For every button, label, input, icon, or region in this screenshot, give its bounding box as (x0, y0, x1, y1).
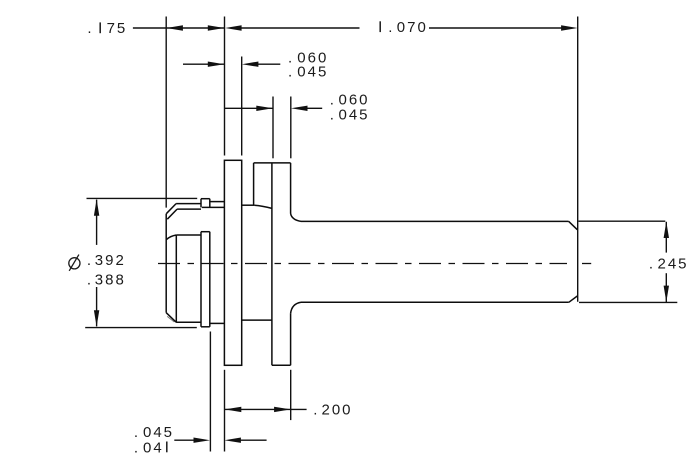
washer mid section right edge (209, 232, 211, 327)
hex head left edge (165, 214, 167, 313)
washer nub left edge (200, 199, 202, 208)
hex head flange chamfer lower diagonal (167, 209, 177, 219)
groove slope into disk2 (254, 205, 272, 208)
hex head flange tab top edge (176, 203, 201, 205)
groove line between disk1 and block (242, 204, 255, 206)
dimension .245 arrow down (664, 286, 669, 303)
svg-text:200: 200 (322, 402, 353, 419)
dimension 1.070 line right segment (429, 27, 562, 29)
neck bottom edge through washer (202, 206, 224, 208)
dimension 1.070 line left segment (241, 27, 360, 29)
dimension .060/.045 upper arrow right (tip at disk1 right) (242, 62, 259, 67)
groove bottom line between disks (242, 319, 272, 321)
svg-text:070: 070 (397, 19, 428, 36)
dimension .245 arrow up (664, 222, 669, 239)
svg-text:04: 04 (143, 439, 164, 456)
neck top edge (210, 201, 225, 203)
svg-text:.: . (134, 439, 140, 456)
block top edge (254, 162, 291, 164)
extension line disk2-left (top, .060) (272, 97, 274, 159)
dimension .045/.041 arrow right (tip at disk1-left ext) (224, 438, 241, 443)
svg-text:75: 75 (107, 20, 128, 37)
hex head flange chamfer upper diagonal (166, 204, 176, 214)
svg-text:.: . (388, 19, 394, 36)
dimension .045/.041 line right tail (241, 439, 267, 441)
washer mid section left edge (200, 232, 202, 327)
dimension .060/.045 upper line left tail (183, 63, 224, 65)
extension line shaft end / 1.070 right (577, 17, 579, 302)
diameter dim top leader (87, 197, 198, 199)
dimension .060/.045 lower arrow right (tip at disk2 right) (291, 106, 308, 111)
hex head bottom chamfer inner diagonal (faint) (167, 316, 174, 322)
extension line disk1-right (top, .060) (241, 57, 243, 156)
svg-text:.: . (330, 107, 336, 124)
diameter symbol (69, 255, 80, 271)
disk1 rectangle (224, 160, 241, 365)
dimension .200 line (225, 408, 291, 410)
dimension 1.070 arrow left (225, 25, 242, 30)
dimension .175 leader from text (133, 27, 166, 29)
hex head facet vertical edge (175, 235, 177, 322)
washer nub right edge (209, 199, 211, 208)
svg-text:388: 388 (95, 271, 126, 288)
svg-text:.: . (87, 271, 93, 288)
disk2 bottom edge (272, 364, 291, 366)
dimension .245 bottom leader (579, 301, 677, 303)
svg-text:.: . (313, 402, 319, 419)
washer mid section top cap (201, 231, 210, 233)
dimension .245 vertical lower segment (665, 273, 667, 302)
block left edge (253, 163, 255, 205)
dimension .060/.045 lower arrow left (tip at disk2 left) (256, 106, 273, 111)
washer nub top edge (201, 198, 210, 200)
dimension .045/.041 arrow left (tip at washer ext) (194, 438, 211, 443)
diameter dim vertical line lower segment (96, 287, 98, 326)
lower neck bottom edge (210, 322, 225, 324)
dimension .060/.045 lower line left tail (225, 107, 273, 109)
hex head bottom edge (176, 321, 201, 323)
dimension .175 arrow right (208, 25, 225, 30)
dimension .200 leader to text (291, 408, 307, 410)
dimension .245 top leader (579, 220, 666, 222)
extension line disk2-right (bottom, .200) (290, 370, 292, 420)
disk2 right edge lower (290, 313, 292, 365)
disk2 right edge upper (290, 163, 292, 214)
svg-text:.: . (649, 256, 655, 273)
centerline main dashed run (158, 263, 567, 265)
dimension .200 arrow right (274, 407, 291, 412)
dimension .060/.045 lower line right tail (307, 107, 323, 109)
extension line disk2-right (top, .060) (290, 97, 292, 159)
svg-text:.: . (87, 20, 93, 37)
diameter dim bottom leader (85, 327, 197, 329)
diameter dim vertical line upper segment (96, 200, 98, 245)
dimension .175 arrow left (166, 25, 183, 30)
svg-text:045: 045 (297, 64, 328, 81)
diameter dim arrow up (94, 199, 99, 216)
svg-text:045: 045 (339, 107, 370, 124)
shaft end bottom chamfer (569, 296, 578, 302)
extension line disk1-left (top, .175/1.070/.060) (224, 17, 226, 156)
svg-text:.: . (87, 252, 93, 269)
extension line left (.175, part left extent) (165, 17, 167, 208)
svg-text:245: 245 (658, 256, 689, 273)
dimension .200 arrow left (225, 407, 242, 412)
dimension .060/.045 upper line right tail (258, 63, 281, 65)
extension line washer right (bottom, .045/.041) (209, 332, 211, 452)
hex head facet chamfer arc (166, 235, 176, 240)
svg-text:.: . (288, 64, 294, 81)
dimension .060/.045 upper arrow left (tip at disk1 left) (208, 62, 225, 67)
shaft bottom fillet (291, 302, 301, 313)
dimension .175 line between arrows (166, 27, 224, 29)
shaft top fillet (291, 214, 301, 222)
centerline final dash past shaft end (582, 263, 591, 265)
dimension 1.070 arrow right (561, 25, 578, 30)
hex head flange tab bottom edge (177, 208, 201, 210)
hex head bottom chamfer diagonal (166, 313, 176, 323)
dimension .045/.041 line left tail (174, 439, 193, 441)
svg-text:392: 392 (95, 252, 126, 269)
diameter dim arrow down (94, 310, 99, 327)
disk2 left edge (271, 163, 273, 365)
dimension .245 vertical upper segment (665, 222, 667, 253)
shaft bottom edge (301, 301, 569, 303)
shaft top edge (301, 220, 569, 222)
shaft end top chamfer (569, 221, 578, 229)
hex head facet top edge (176, 234, 201, 236)
washer bottom cap (201, 326, 210, 328)
extension line disk1-left (bottom, .045/.041 and .200) (224, 370, 226, 452)
